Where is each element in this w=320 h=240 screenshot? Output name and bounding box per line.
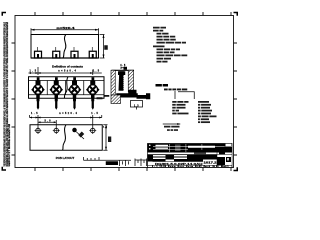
svg-text:21.05: 21.05 <box>160 166 167 168</box>
svg-text:05.02: 05.02 <box>195 166 202 168</box>
svg-text:1017.2: 1017.2 <box>204 162 218 165</box>
svg-text:Baum: Baum <box>168 166 176 168</box>
svg-text:Norm: Norm <box>186 166 193 168</box>
svg-text:n×5±0.4: n×5±0.4 <box>57 27 76 30</box>
svg-text:GESCHUTZT MARKE EIGENTUM: GESCHUTZT MARKE EIGENTUM <box>7 123 11 166</box>
